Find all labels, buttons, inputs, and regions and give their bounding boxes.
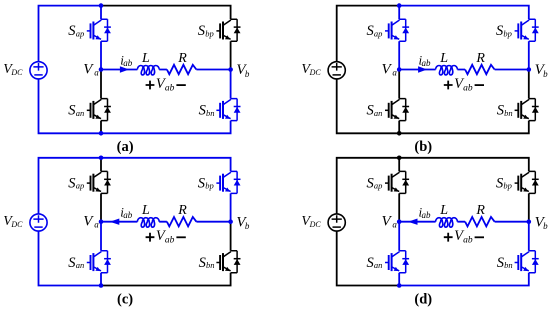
svg-text:DC: DC (10, 68, 23, 77)
wire top-right segment + transistor Sbp: IGBT with antiparallel diode (b) (399, 6, 539, 70)
svg-text:a: a (392, 67, 397, 77)
svg-text:bn: bn (504, 108, 513, 118)
svg-text:R: R (177, 203, 187, 218)
svg-text:ab: ab (123, 210, 133, 220)
svg-text:L: L (141, 203, 150, 218)
transistor Sap: IGBT with antiparallel diode (a) (87, 6, 111, 70)
junction: bottom rail / phase-a leg (b) (397, 131, 402, 136)
svg-text:R: R (177, 51, 187, 66)
DC voltage source VDC (d) (328, 214, 345, 231)
wire: top-left segment + left rail + bottom-left segment (b) (337, 6, 400, 134)
junction: bottom rail / phase-a leg (a) (99, 131, 104, 136)
transistor San: IGBT with antiparallel diode (d) (385, 222, 409, 286)
svg-text:DC: DC (10, 220, 23, 229)
wire: load branch from Va to Vb (d) (399, 221, 529, 223)
svg-text:a: a (392, 220, 397, 230)
resistor R (d) (465, 217, 495, 226)
svg-text:bn: bn (206, 260, 215, 270)
svg-text:ab: ab (463, 236, 473, 246)
svg-text:an: an (76, 260, 85, 270)
resistor R (c) (167, 217, 197, 226)
transistor Sap: IGBT with antiparallel diode (d) (385, 158, 409, 222)
wire: top-left segment + left rail + bottom-left segment (c) (39, 158, 102, 286)
node Vb (d) (527, 219, 532, 224)
node Va (b) (397, 67, 402, 72)
polarity marks and label +Vab- (a) (146, 81, 155, 90)
transistor Sap: IGBT with antiparallel diode (c) (87, 158, 111, 222)
polarity marks and label +Vab- (c) (146, 233, 155, 242)
svg-text:ab: ab (463, 83, 473, 93)
junction: top rail / phase-a leg (b) (397, 3, 402, 8)
junction: top rail / phase-a leg (c) (99, 156, 104, 161)
svg-text:an: an (374, 260, 383, 270)
svg-text:b: b (245, 221, 250, 231)
inductor L (c) (137, 218, 159, 227)
svg-text:R: R (475, 203, 485, 218)
svg-text:bp: bp (503, 181, 512, 191)
junction: bottom rail / phase-a leg (d) (397, 283, 402, 288)
transistor Sbn: IGBT with antiparallel diode + bottom-right wire segment (b) (399, 70, 539, 134)
node Va (d) (397, 219, 402, 224)
svg-text:ab: ab (422, 210, 432, 220)
svg-text:ap: ap (374, 181, 383, 191)
svg-text:ab: ab (165, 83, 175, 93)
svg-text:L: L (141, 51, 150, 66)
current direction arrow iab (d) (408, 219, 418, 225)
svg-text:DC: DC (309, 68, 322, 77)
svg-text:ap: ap (374, 28, 383, 38)
resistor R (b) (465, 65, 495, 74)
svg-text:bp: bp (205, 28, 214, 38)
current direction arrow iab (c) (110, 219, 120, 225)
current direction arrow iab (b) (418, 66, 427, 72)
DC voltage source VDC (b) (328, 62, 345, 79)
svg-text:bp: bp (205, 181, 214, 191)
svg-text:(c): (c) (117, 291, 133, 307)
wire top-right segment + transistor Sbp: IGBT with antiparallel diode (c) (101, 158, 241, 222)
transistor Sbn: IGBT with antiparallel diode + bottom-right wire segment (c) (101, 222, 241, 286)
junction: bottom rail / phase-a leg (c) (99, 283, 104, 288)
wire: load branch from Va to Vb (b) (399, 69, 529, 71)
node Vb (c) (228, 219, 233, 224)
current direction arrow iab (a) (120, 66, 129, 72)
wire: load branch from Va to Vb (a) (101, 69, 231, 71)
node Vb (a) (228, 67, 233, 72)
polarity marks and label +Vab- (d) (444, 233, 453, 242)
svg-text:an: an (76, 108, 85, 118)
node Va (a) (99, 67, 104, 72)
svg-text:DC: DC (309, 220, 322, 229)
svg-text:a: a (94, 67, 99, 77)
svg-text:ab: ab (165, 236, 175, 246)
junction: top rail / phase-a leg (d) (397, 156, 402, 161)
svg-text:(d): (d) (414, 291, 432, 307)
junction: top rail / phase-a leg (a) (99, 3, 104, 8)
node Va (c) (99, 219, 104, 224)
svg-text:ab: ab (422, 58, 432, 68)
svg-text:bn: bn (504, 260, 513, 270)
resistor R (a) (167, 65, 197, 74)
svg-text:L: L (439, 203, 448, 218)
svg-text:a: a (94, 220, 99, 230)
transistor Sbn: IGBT with antiparallel diode + bottom-right wire segment (a) (101, 70, 241, 134)
wire top-right segment + transistor Sbp: IGBT with antiparallel diode (a) (101, 6, 241, 70)
svg-text:ap: ap (76, 28, 85, 38)
transistor San: IGBT with antiparallel diode (b) (385, 70, 409, 134)
transistor San: IGBT with antiparallel diode (c) (87, 222, 111, 286)
DC voltage source VDC (c) (30, 214, 47, 231)
wire: load branch from Va to Vb (c) (101, 221, 231, 223)
inductor L (d) (436, 218, 458, 227)
wire: top-left segment + left rail + bottom-left segment (d) (337, 158, 400, 286)
wire: top-left segment + left rail + bottom-left segment (a) (39, 6, 102, 134)
svg-text:bp: bp (503, 28, 512, 38)
inductor L (a) (137, 66, 159, 75)
svg-text:b: b (543, 69, 548, 79)
transistor San: IGBT with antiparallel diode (a) (87, 70, 111, 134)
svg-text:ab: ab (123, 58, 133, 68)
transistor Sbn: IGBT with antiparallel diode + bottom-right wire segment (d) (399, 222, 539, 286)
svg-text:bn: bn (206, 108, 215, 118)
svg-text:an: an (374, 108, 383, 118)
svg-text:(a): (a) (117, 139, 134, 155)
svg-text:(b): (b) (414, 139, 432, 155)
node Vb (b) (527, 67, 532, 72)
wire top-right segment + transistor Sbp: IGBT with antiparallel diode (d) (399, 158, 539, 222)
svg-text:ap: ap (76, 181, 85, 191)
polarity marks and label +Vab- (b) (444, 81, 453, 90)
transistor Sap: IGBT with antiparallel diode (b) (385, 6, 409, 70)
svg-text:b: b (543, 221, 548, 231)
svg-text:R: R (475, 51, 485, 66)
DC voltage source VDC (a) (30, 62, 47, 79)
svg-text:b: b (245, 69, 250, 79)
svg-text:L: L (439, 51, 448, 66)
inductor L (b) (436, 66, 458, 75)
